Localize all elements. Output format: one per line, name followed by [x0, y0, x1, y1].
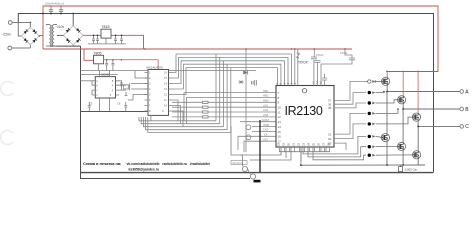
svg-text:19: 19	[282, 142, 286, 146]
svg-text:ks3658@yandex.ru: ks3658@yandex.ru	[129, 167, 160, 171]
svg-text:~220v: ~220v	[1, 33, 11, 37]
svg-text:vk.com/radiolubitelb radiolu: vk.com/radiolubitelb radiolubitelb.ru #r…	[127, 162, 211, 166]
svg-text:HIN3: HIN3	[263, 100, 269, 103]
svg-text:15: 15	[278, 130, 282, 134]
svg-text:27: 27	[322, 142, 326, 146]
svg-text:LIN1: LIN1	[263, 104, 269, 107]
svg-text:13: 13	[278, 120, 282, 124]
svg-text:VSS: VSS	[263, 138, 268, 141]
svg-text:28: 28	[327, 142, 331, 146]
svg-text:HIN2: HIN2	[263, 95, 269, 98]
svg-text:30: 30	[328, 137, 332, 141]
svg-text:12: 12	[278, 115, 282, 119]
svg-text:CA-: CA-	[264, 134, 268, 137]
svg-text:21: 21	[292, 142, 296, 146]
svg-text:18: 18	[277, 142, 281, 146]
svg-text:HIN1: HIN1	[263, 90, 269, 93]
svg-text:Схема и печатка на:: Схема и печатка на:	[83, 161, 121, 166]
svg-text:220mFх400v х2: 220mFх400v х2	[45, 2, 65, 6]
svg-text:FAULT: FAULT	[262, 119, 270, 122]
svg-text:IR2130: IR2130	[285, 104, 323, 118]
svg-text:22: 22	[297, 142, 301, 146]
svg-text:31: 31	[328, 132, 332, 136]
svg-text:10: 10	[278, 106, 282, 110]
svg-text:LIN3: LIN3	[263, 114, 269, 117]
svg-text:20: 20	[287, 142, 291, 146]
svg-text:35: 35	[328, 106, 332, 110]
svg-text:26: 26	[317, 142, 321, 146]
svg-text:0.005 Ом: 0.005 Ом	[405, 168, 417, 172]
svg-text:7815: 7815	[102, 25, 110, 29]
svg-text:MC14L/4070: MC14L/4070	[147, 65, 163, 69]
svg-text:25: 25	[312, 142, 316, 146]
svg-text:CAO: CAO	[263, 129, 268, 132]
svg-text:14: 14	[278, 125, 282, 129]
svg-text:C: C	[465, 124, 469, 130]
svg-text:7805: 7805	[94, 52, 102, 56]
svg-text:24: 24	[307, 142, 311, 146]
svg-text:470mF: 470mF	[340, 52, 348, 55]
svg-text:23: 23	[302, 142, 306, 146]
svg-text:~110v: ~110v	[55, 25, 64, 29]
svg-text:16: 16	[278, 135, 282, 139]
svg-text:LIN2: LIN2	[263, 109, 269, 112]
svg-text:ITRIP: ITRIP	[263, 124, 270, 127]
svg-text:C5: C5	[89, 102, 93, 106]
svg-text:11: 11	[278, 110, 281, 114]
svg-text:"ПУСК": "ПУСК"	[298, 60, 310, 64]
svg-text:Однофазн: Однофазн	[232, 162, 243, 165]
svg-text:C6: C6	[117, 102, 121, 106]
svg-text:470mF: 470mF	[316, 54, 324, 57]
